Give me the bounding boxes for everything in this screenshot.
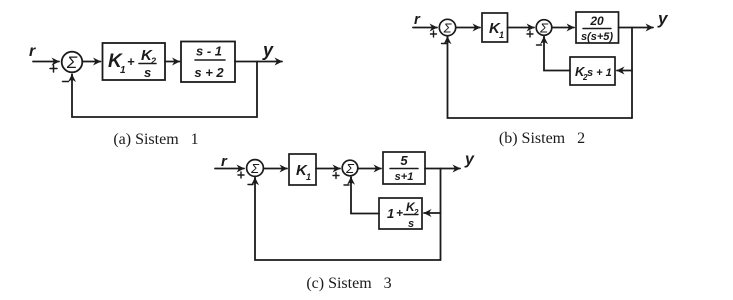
node y (output label, diagram b) [657, 9, 669, 28]
svg-text:(a) Sistem 1: (a) Sistem 1 [113, 131, 198, 148]
svg-text:Σ: Σ [66, 53, 78, 72]
svg-text:s(s+5): s(s+5) [581, 31, 613, 43]
minus sign at summer S2c [344, 184, 349, 186]
wire tap to block H1c [424, 212, 441, 214]
block H1c: 1 + K2/s [379, 198, 422, 229]
block H1b: K2 s + 1 [570, 57, 615, 85]
wire K1c to summer S2c [316, 168, 340, 170]
block G1c: 5/(s+1) [383, 152, 425, 184]
fraction bar K2/s in block G1a [139, 63, 156, 65]
svg-text:r: r [221, 153, 228, 170]
wire H1c to summer S2c (inner feedback) [351, 178, 379, 214]
wire r to summer S1a [33, 61, 59, 63]
svg-text:+: + [127, 54, 135, 69]
wire G2a to output y (diagram a) [235, 61, 282, 63]
arrowhead outer feedback into S1c [254, 178, 256, 183]
caption (a) Sistem 1 [113, 131, 198, 148]
svg-text:(b) Sistem 2: (b) Sistem 2 [499, 130, 585, 147]
svg-text:Σ: Σ [345, 161, 355, 176]
wire tap to block H1b [617, 70, 632, 72]
caption (c) Sistem 3 [306, 275, 391, 292]
svg-text:y: y [262, 40, 274, 60]
node y (output label, diagram a) [262, 40, 274, 60]
svg-text:20: 20 [589, 14, 604, 28]
wire output tap down (diagram b) [631, 28, 633, 119]
svg-text:Σ: Σ [250, 161, 260, 176]
plus sign at summer S1c [238, 172, 244, 178]
wire G1b to output y (diagram b) [619, 27, 654, 29]
wire outer feedback (diagram b) [448, 37, 633, 118]
summing junction S1a [62, 52, 83, 73]
svg-text:1: 1 [387, 206, 394, 221]
wire feedback tap down (diagram a) [72, 62, 257, 118]
svg-text:s+1: s+1 [395, 171, 414, 183]
wire S1b to block K1b [456, 27, 480, 29]
svg-text:y: y [657, 9, 669, 28]
node r (input label, diagram c) [221, 153, 228, 170]
arrowhead feedback into S1a [71, 75, 73, 81]
svg-text:(c) Sistem 3: (c) Sistem 3 [306, 275, 391, 292]
plus sign at summer S2c [333, 173, 339, 179]
summing junction S1c [247, 160, 264, 177]
svg-text:s: s [408, 218, 414, 230]
wire outer feedback (diagram c) [255, 178, 441, 260]
svg-text:1: 1 [499, 30, 504, 40]
plus sign at summer S1a [50, 65, 57, 72]
block G1b: 20 / s(s+5) [576, 12, 619, 43]
block K1c: K1 [289, 154, 316, 185]
svg-text:+: + [396, 206, 403, 220]
wire r to summer S1c [215, 168, 244, 170]
wire G1a to block G2a [165, 61, 180, 63]
fraction bar in block G1b [583, 28, 611, 30]
svg-text:r: r [414, 11, 421, 28]
svg-text:Σ: Σ [539, 21, 549, 36]
block G2a: (s-1)/(s+2) [181, 42, 235, 83]
wire output tap down (diagram c) [440, 169, 442, 261]
node r (input label, diagram b) [414, 11, 421, 28]
arrowhead inner feedback into S2c [350, 177, 352, 183]
svg-text:r: r [29, 43, 36, 60]
svg-text:s + 2: s + 2 [194, 65, 224, 80]
svg-text:s - 1: s - 1 [196, 44, 222, 59]
wire r to summer S1b [413, 27, 437, 29]
arrowhead outer feedback into S1b [447, 37, 449, 42]
svg-text:5: 5 [400, 153, 408, 168]
svg-text:2: 2 [413, 208, 419, 217]
fraction bar in block G2a [195, 59, 225, 61]
caption (b) Sistem 2 [499, 130, 585, 147]
svg-text:y: y [464, 151, 475, 168]
svg-text:s: s [144, 65, 151, 80]
plus sign at summer S2b [527, 31, 533, 37]
svg-text:1: 1 [120, 65, 126, 76]
minus sign at summer S2b [537, 44, 542, 46]
minus sign at summer S1a [63, 81, 69, 83]
wire S1a to block G1a [83, 61, 101, 63]
fraction bar K2/s in block H1c [404, 214, 418, 216]
summing junction S1b [439, 19, 455, 35]
wire S2c to block G1c [358, 168, 381, 170]
summing junction S2b [536, 20, 552, 36]
svg-text:Σ: Σ [443, 21, 453, 36]
wire K1b to summer S2b [508, 27, 535, 29]
wire G1c to output y (diagram c) [425, 168, 460, 170]
block G1a: K1 + K2/s [103, 43, 166, 80]
plus sign at summer S1b [431, 31, 437, 37]
wire S2b to block G1b [552, 27, 574, 29]
minus sign at summer S1c [248, 184, 253, 186]
fraction bar in block G1c [390, 168, 418, 170]
wire H1b to summer S2b (inner feedback) [544, 37, 570, 71]
svg-text:s + 1: s + 1 [587, 67, 612, 79]
arrowhead inner feedback into S2b [543, 37, 545, 42]
node r (input label, diagram a) [29, 43, 36, 60]
node y (output label, diagram c) [464, 151, 475, 168]
summing junction S2c [342, 160, 358, 176]
svg-text:1: 1 [306, 172, 311, 182]
minus sign at summer S1b [442, 43, 447, 45]
wire S1c to block K1c [264, 168, 288, 170]
block K1b: K1 [482, 13, 508, 42]
